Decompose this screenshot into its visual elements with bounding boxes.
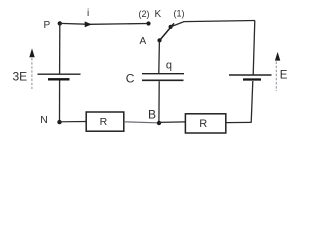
emf arrow 3E stem [31, 58, 33, 89]
svg-text:3E: 3E [13, 70, 28, 84]
wire terminal (1) to top-right corner [171, 21, 255, 27]
capacitor C bottom plate [142, 79, 184, 81]
wire right side down to battery E [253, 21, 255, 75]
svg-text:P: P [44, 20, 51, 31]
svg-text:(1): (1) [174, 8, 185, 18]
svg-text:B: B [148, 108, 156, 122]
wire capacitor C to node B [158, 81, 160, 123]
svg-text:C: C [126, 71, 135, 85]
switch terminal (1) node [169, 25, 173, 29]
battery 3E short plate [48, 78, 70, 80]
svg-text:(2): (2) [139, 9, 150, 19]
wire P to switch terminal (2) [60, 22, 149, 25]
svg-text:R: R [100, 116, 108, 128]
capacitor C top plate [142, 73, 184, 75]
resistor R1 box [86, 112, 124, 131]
svg-text:i: i [87, 8, 89, 19]
switch terminal (2) node [146, 21, 150, 25]
emf arrow E head [275, 52, 280, 61]
wire battery E to bottom-right corner [251, 81, 253, 122]
wire battery 3E to node N [59, 80, 61, 122]
node N [57, 120, 61, 124]
wire B to resistor R2 [159, 121, 185, 124]
emf arrow E stem [275, 62, 277, 92]
svg-text:E: E [280, 70, 288, 82]
battery 3E long plate [38, 73, 81, 75]
wire N to resistor R1 [60, 121, 87, 123]
node P [58, 21, 62, 25]
wire switch pivot A to capacitor C [158, 41, 161, 73]
resistor R2 box [185, 114, 225, 133]
battery E short plate [243, 78, 261, 80]
svg-text:R: R [199, 118, 207, 130]
wire R1 to node B [124, 122, 157, 123]
svg-text:N: N [40, 114, 48, 126]
switch K arm [160, 23, 175, 40]
wire P down to battery 3E [59, 23, 61, 73]
battery E long plate [229, 74, 272, 76]
svg-text:A: A [140, 36, 147, 47]
svg-text:q: q [166, 60, 172, 72]
switch pivot node A [157, 38, 161, 42]
svg-text:K: K [155, 9, 162, 20]
current arrow i [85, 21, 92, 27]
node B [157, 121, 161, 125]
emf arrow 3E head [29, 48, 34, 57]
wire R2 to bottom-right corner [226, 121, 252, 123]
